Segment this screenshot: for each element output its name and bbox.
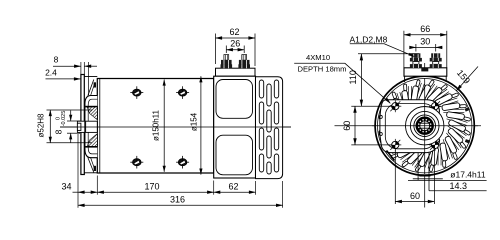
mounting flange plate (front view)	[380, 100, 440, 153]
svg-text:2.4: 2.4	[45, 67, 57, 77]
bearing boss circle	[406, 107, 444, 145]
front stud right	[430, 53, 442, 68]
front mounting flange disc (edge-on)	[81, 75, 84, 175]
vent slots column 3	[274, 80, 278, 172]
endcap screw top	[94, 82, 96, 87]
inner rim circle	[378, 79, 472, 173]
svg-text:4XM10: 4XM10	[306, 53, 330, 62]
bolt hole M10 top-left	[389, 100, 401, 112]
svg-text:34: 34	[61, 182, 71, 192]
svg-text:30: 30	[420, 37, 430, 47]
svg-text:26: 26	[230, 39, 240, 49]
dome rib top	[88, 80, 94, 96]
centerline overlay front view	[372, 125, 478, 127]
endcap screw bottom	[94, 166, 96, 171]
vent slots column 1	[259, 80, 263, 172]
flange left tab hole upper	[379, 115, 382, 118]
front endcap top edge	[84, 76, 97, 78]
rear vent band	[256, 77, 283, 179]
lower tab line	[413, 178, 443, 180]
center tab between studs	[421, 68, 428, 72]
plate side tabs	[404, 76, 406, 82]
spline teeth	[417, 118, 433, 134]
svg-text:ø150h11: ø150h11	[152, 109, 161, 141]
terminal stud right (side view)	[238, 55, 250, 69]
bearing top race line	[86, 106, 98, 108]
bearing bottom race line	[86, 146, 98, 148]
vent slots column 2	[267, 84, 271, 174]
terminal plate (side view)	[216, 68, 256, 76]
svg-text:110: 110	[348, 70, 358, 84]
svg-text:62: 62	[228, 181, 238, 191]
svg-text:0: 0	[55, 117, 61, 120]
leader hatch mark lower-left hole	[387, 151, 395, 161]
outer shell circle	[375, 76, 474, 175]
centerline overlay side view	[60, 126, 291, 128]
spline minor circle	[420, 121, 430, 131]
tie bolt top-right	[176, 86, 189, 99]
flange-shaft crossing bar	[84, 121, 86, 132]
svg-text:-0.025: -0.025	[61, 111, 67, 127]
boss inner circle	[414, 115, 436, 137]
spline major circle	[417, 118, 433, 134]
svg-text:316: 316	[170, 194, 185, 204]
svg-text:ø52H8: ø52H8	[37, 113, 46, 138]
svg-text:DEPTH 18mm: DEPTH 18mm	[298, 65, 347, 74]
shaft stub tip	[77, 123, 81, 130]
vertical centerline front view	[424, 63, 426, 208]
bracket below hub	[418, 153, 429, 191]
fan vent slot template	[379, 80, 471, 172]
brush window top	[216, 80, 253, 119]
dim 159 diagonal	[456, 67, 478, 91]
bracket bottom bar	[419, 174, 430, 176]
terminal stud left (side view)	[221, 55, 233, 69]
dome inner contour	[88, 99, 97, 154]
fan blade lines between slots	[382, 83, 468, 169]
bolt hole M10 bottom-right	[429, 139, 441, 151]
rear brush housing	[214, 76, 256, 178]
svg-text:14.3: 14.3	[450, 181, 468, 191]
shaft	[77, 121, 97, 132]
boss middle circle	[410, 111, 439, 140]
svg-text:60: 60	[342, 121, 352, 131]
svg-text:62: 62	[229, 27, 239, 37]
front stud left	[410, 53, 422, 68]
spline bore flats	[421, 122, 429, 124]
tie bolt bottom-left	[130, 156, 143, 169]
tie bolt top-left	[130, 86, 143, 99]
brush window bottom	[216, 135, 253, 175]
body front face double line	[99, 79, 101, 174]
dimension line dia154	[200, 76, 202, 174]
svg-text:ø17.4h11: ø17.4h11	[450, 170, 486, 180]
dimension line dia150h11	[163, 80, 165, 172]
rim tick lower-right	[465, 139, 470, 143]
flange inner edge	[385, 104, 436, 149]
horizontal centerline front view	[335, 125, 482, 127]
bolt hole M10 top-right	[429, 100, 441, 112]
bearing housing dome	[85, 96, 97, 158]
svg-text:8: 8	[54, 129, 64, 134]
terminal plate front view	[404, 68, 447, 76]
front endcap bottom edge	[84, 172, 97, 174]
rim slot marks	[379, 80, 471, 172]
svg-text:60: 60	[410, 191, 420, 201]
svg-text:8: 8	[54, 55, 59, 65]
rim tick upper-right	[465, 107, 470, 111]
dome rib bottom	[88, 157, 94, 172]
extension lines top-left	[81, 62, 89, 95]
bearing hatch bottom	[87, 134, 97, 147]
motor body (stator housing)	[97, 79, 213, 174]
flange left tab hole lower	[379, 132, 382, 135]
bolt hole M10 bottom-left	[389, 139, 401, 151]
svg-text:A1,D2,M8: A1,D2,M8	[350, 34, 388, 44]
svg-text:66: 66	[420, 24, 430, 34]
tie bolt bottom-right	[176, 156, 189, 169]
centerline of side view	[60, 126, 291, 128]
svg-text:ø154: ø154	[190, 112, 199, 131]
svg-text:170: 170	[144, 181, 159, 191]
bearing hatch top	[87, 107, 97, 120]
extension lines bottom	[78, 134, 283, 208]
